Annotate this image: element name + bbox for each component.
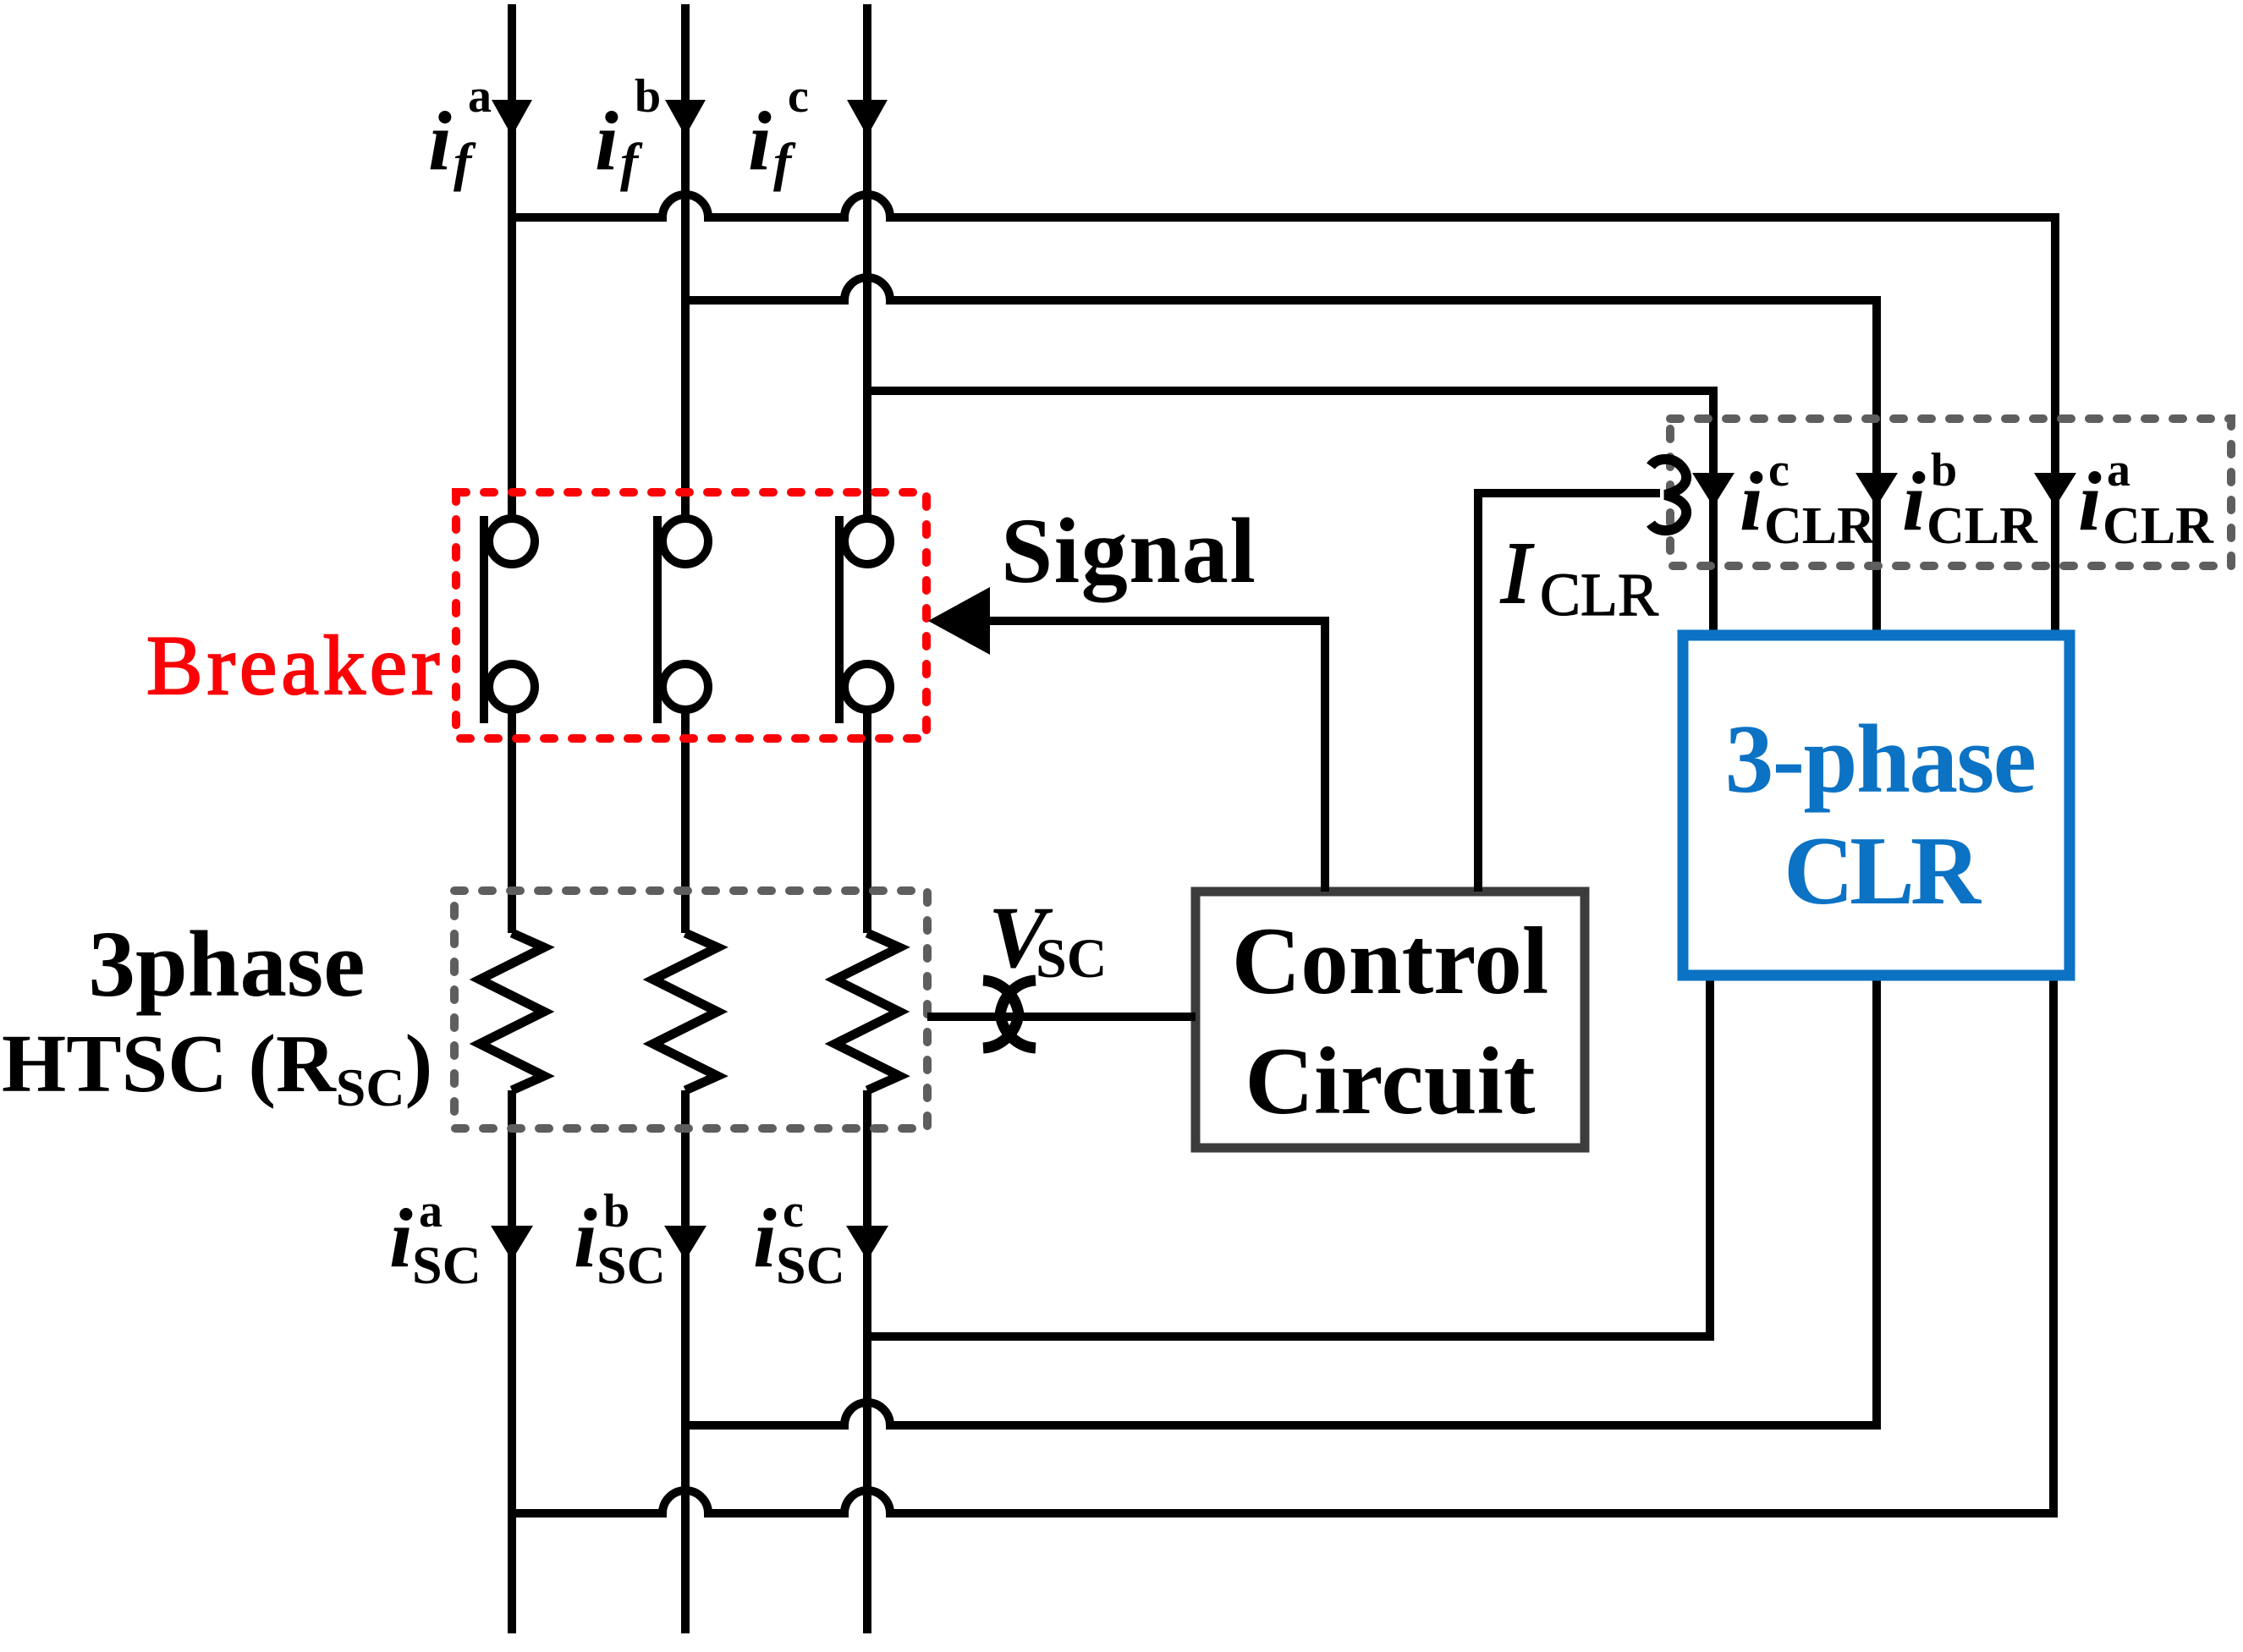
svg-text:i: i	[753, 1191, 777, 1285]
svg-text:SC: SC	[412, 1235, 481, 1295]
svg-text:3-phase: 3-phase	[1725, 705, 2036, 813]
svg-text:Control: Control	[1232, 908, 1549, 1014]
svg-text:CLR: CLR	[2103, 497, 2214, 555]
svg-text:a: a	[468, 70, 492, 123]
svg-text:i: i	[389, 1191, 413, 1285]
svg-text:SC: SC	[596, 1235, 666, 1295]
svg-text:Signal: Signal	[1001, 499, 1256, 602]
svg-text:i: i	[1902, 454, 1926, 548]
svg-text:CLR: CLR	[1784, 817, 1982, 925]
svg-text:Breaker: Breaker	[146, 618, 443, 712]
svg-text:CLR: CLR	[1540, 561, 1658, 628]
svg-text:b: b	[1931, 444, 1957, 497]
svg-text:a: a	[419, 1185, 443, 1238]
svg-text:a: a	[2107, 444, 2130, 497]
svg-text:c: c	[1768, 444, 1789, 497]
svg-text:SC: SC	[1036, 928, 1107, 990]
svg-text:i: i	[428, 94, 452, 188]
svg-text:Circuit: Circuit	[1245, 1029, 1536, 1134]
svg-text:i: i	[1740, 454, 1763, 548]
svg-text:I: I	[1500, 524, 1534, 622]
svg-text:CLR: CLR	[1764, 497, 1876, 555]
svg-text:c: c	[783, 1185, 804, 1238]
svg-text:b: b	[635, 70, 661, 123]
svg-text:3phase: 3phase	[89, 913, 366, 1017]
svg-text:i: i	[574, 1191, 597, 1285]
svg-text:i: i	[2078, 454, 2102, 548]
svg-text:c: c	[788, 70, 809, 123]
svg-text:i: i	[748, 94, 772, 188]
svg-text:SC: SC	[776, 1235, 845, 1295]
svg-text:b: b	[603, 1185, 629, 1238]
svg-text:CLR: CLR	[1927, 497, 2038, 555]
svg-text:i: i	[595, 94, 618, 188]
